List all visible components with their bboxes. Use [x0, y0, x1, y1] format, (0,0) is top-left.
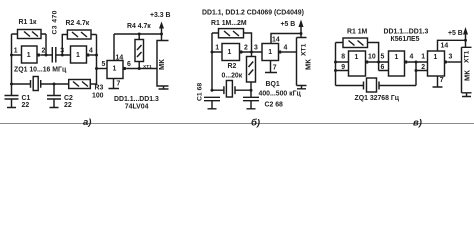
svg-text:1: 1 — [434, 54, 438, 61]
svg-text:0...20к: 0...20к — [222, 73, 243, 80]
svg-text:C2 68: C2 68 — [265, 102, 284, 109]
svg-text:+5 В: +5 В — [448, 30, 463, 37]
svg-text:XT1: XT1 — [464, 50, 471, 63]
svg-text:100: 100 — [92, 93, 104, 100]
svg-text:7: 7 — [273, 65, 277, 72]
svg-text:BQ1: BQ1 — [266, 81, 280, 88]
svg-text:9: 9 — [341, 64, 345, 71]
svg-text:7: 7 — [117, 81, 121, 88]
svg-text:C1 68: C1 68 — [197, 83, 204, 101]
svg-text:R2 4.7к: R2 4.7к — [66, 20, 90, 27]
svg-text:22: 22 — [22, 102, 30, 109]
svg-text:10: 10 — [368, 54, 376, 61]
svg-text:DD1.1, DD1.2 CD4069 (CD4049): DD1.1, DD1.2 CD4069 (CD4049) — [202, 10, 304, 17]
svg-text:а): а) — [83, 117, 91, 128]
svg-text:в): в) — [413, 118, 422, 129]
svg-text:R1 1М...2М: R1 1М...2М — [211, 20, 247, 27]
svg-text:МК: МК — [304, 59, 313, 70]
svg-text:4: 4 — [89, 48, 93, 55]
svg-text:XT1: XT1 — [143, 64, 152, 70]
svg-text:1: 1 — [355, 54, 359, 61]
svg-text:+5 В: +5 В — [281, 21, 296, 28]
svg-text:5: 5 — [381, 54, 385, 61]
svg-text:ZQ1 32768 Гц: ZQ1 32768 Гц — [355, 95, 400, 102]
svg-text:DD1.1...DD1.3: DD1.1...DD1.3 — [384, 29, 429, 36]
svg-text:4: 4 — [410, 54, 414, 61]
svg-text:400...500 кГц: 400...500 кГц — [259, 91, 302, 98]
svg-text:МК: МК — [463, 70, 472, 81]
svg-text:6: 6 — [381, 64, 385, 71]
svg-text:14: 14 — [441, 43, 449, 50]
svg-text:1: 1 — [228, 49, 232, 56]
svg-text:C3 470: C3 470 — [52, 10, 59, 34]
svg-text:R4 4.7к: R4 4.7к — [127, 23, 151, 30]
svg-text:R2: R2 — [228, 63, 237, 70]
svg-text:1: 1 — [14, 48, 18, 55]
svg-text:22: 22 — [64, 102, 72, 109]
svg-text:14: 14 — [116, 55, 124, 62]
svg-text:1: 1 — [113, 66, 117, 73]
svg-text:C2: C2 — [64, 95, 73, 102]
svg-text:74LV04: 74LV04 — [125, 104, 149, 111]
svg-text:1: 1 — [268, 49, 272, 56]
svg-text:7: 7 — [440, 77, 444, 84]
svg-text:МК: МК — [157, 59, 166, 70]
svg-text:R3: R3 — [95, 85, 104, 92]
svg-text:1: 1 — [421, 54, 425, 61]
svg-text:8: 8 — [341, 54, 345, 61]
svg-text:XT1: XT1 — [300, 43, 307, 56]
svg-text:3: 3 — [254, 45, 258, 52]
svg-text:1: 1 — [215, 45, 219, 52]
svg-text:14: 14 — [272, 37, 280, 44]
svg-text:4: 4 — [284, 45, 288, 52]
svg-text:К561ЛЕ5: К561ЛЕ5 — [391, 36, 420, 43]
svg-text:+3.3 В: +3.3 В — [150, 12, 171, 19]
svg-text:3: 3 — [60, 48, 64, 55]
svg-text:2: 2 — [42, 48, 46, 55]
svg-text:2: 2 — [244, 45, 248, 52]
svg-text:R1 1М: R1 1М — [347, 29, 368, 36]
svg-text:3: 3 — [449, 54, 453, 61]
svg-text:2: 2 — [421, 64, 425, 71]
svg-text:5: 5 — [102, 61, 106, 68]
svg-text:б): б) — [251, 118, 260, 129]
svg-text:1: 1 — [27, 52, 31, 59]
svg-text:1: 1 — [76, 52, 80, 59]
svg-text:DD1.1...DD1.3: DD1.1...DD1.3 — [114, 96, 159, 103]
svg-text:R1 1к: R1 1к — [19, 19, 38, 26]
svg-text:6: 6 — [127, 61, 131, 68]
svg-text:ZQ1 10...16 МГц: ZQ1 10...16 МГц — [14, 67, 67, 74]
svg-text:1: 1 — [395, 54, 399, 61]
svg-text:C1: C1 — [22, 95, 31, 102]
